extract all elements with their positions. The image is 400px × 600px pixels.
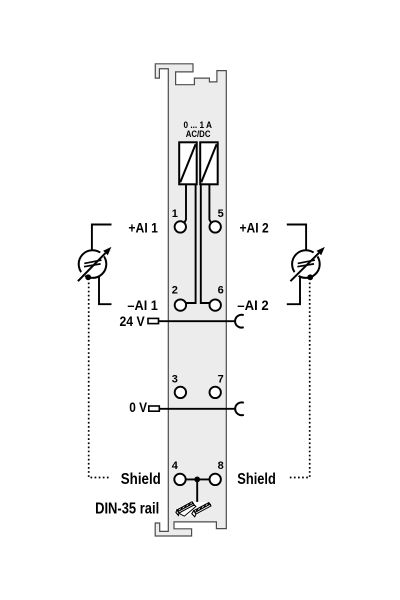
svg-text:–AI 2: –AI 2 [237,297,269,313]
svg-text:24 V: 24 V [120,313,146,329]
wire shunt1 to terminal 1 [184,184,186,223]
wire +AI 2 elbow to source I2 [287,225,306,251]
svg-text:6: 6 [218,284,224,296]
svg-text:Shield: Shield [121,471,161,488]
svg-text:AC/DC: AC/DC [186,129,211,140]
terminal 1 [175,221,186,232]
rail white backdrop [175,500,211,517]
svg-text:+AI 2: +AI 2 [240,219,269,235]
svg-text:2: 2 [172,284,178,296]
shield dotted wire right [289,283,310,478]
terminal 6 [210,299,221,310]
wire shield bus to DIN rail [196,479,198,505]
rail near flange end step [192,511,196,517]
module body outline (DIN rail mount housing) [155,64,226,536]
rail near flange tip [209,503,211,506]
wire -AI 1 elbow from source I1 [99,277,112,305]
DIN rail symbol [175,500,211,517]
rail near flange side face [195,504,211,514]
svg-text:+AI 1: +AI 1 [128,219,158,235]
wire 0 V feed [159,408,235,410]
terminal 3 [175,387,186,398]
svg-text:7: 7 [218,374,224,386]
rail far flange side face [178,503,194,513]
24 V supply plug [148,318,159,323]
0 V pass-through contact [235,402,244,415]
shield tap node I1 [85,274,91,280]
svg-text:5: 5 [218,208,224,220]
wire shunt2 to terminal 6 [201,184,210,303]
wire +AI 1 elbow to source I1 [92,225,112,251]
rail channel web [179,505,196,516]
current source I1 [78,247,112,281]
current source I2 [290,247,324,281]
svg-text:–AI 1: –AI 1 [127,297,158,313]
junction shield bus [194,477,200,483]
shield tap node I2 [307,274,313,280]
rail near flange hatched top [194,503,210,513]
wire shunt2 to terminal 5 [209,184,211,223]
svg-text:0 V: 0 V [129,399,147,415]
svg-text:Shield: Shield [237,471,275,488]
svg-text:4: 4 [172,460,179,472]
svg-text:3: 3 [172,374,178,386]
shunt transducer channel 1 [179,142,197,184]
rail far flange end step [176,510,179,516]
24 V pass-through contact [235,315,244,328]
terminal 2 [175,299,186,310]
rail far flange hatched top [177,502,193,512]
terminal 5 [210,221,221,232]
shunt transducer channel 2 [200,142,218,184]
wire 24 V feed [159,320,236,322]
svg-text:8: 8 [218,460,224,472]
0 V supply plug [149,406,160,411]
wire -AI 2 elbow from source I2 [287,277,300,305]
rail far flange tip [192,502,194,505]
wire shunt1 to terminal 2 [186,184,196,303]
shield dotted wire left [89,283,110,478]
terminal 8 [210,474,221,485]
wire terminal 4 to terminal 8 [186,478,210,480]
svg-text:1: 1 [172,208,178,220]
terminal 7 [210,387,221,398]
svg-text:DIN-35 rail: DIN-35 rail [95,500,159,517]
terminal 4 [174,474,185,485]
